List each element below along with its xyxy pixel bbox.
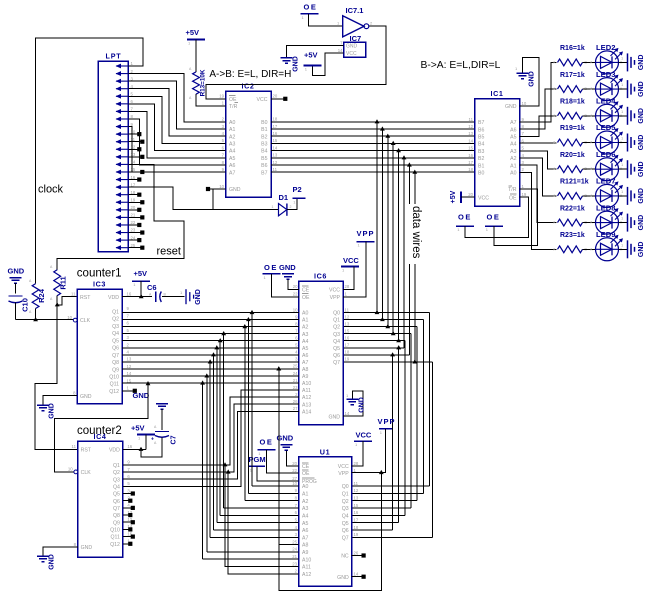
svg-text:CLK: CLK <box>80 318 91 324</box>
svg-text:26: 26 <box>354 550 359 555</box>
svg-text:A7: A7 <box>302 535 308 541</box>
ground terminal IC3 <box>37 403 56 419</box>
svg-text:GND: GND <box>638 215 645 231</box>
svg-text:R22=1k: R22=1k <box>560 205 585 212</box>
svg-text:A14: A14 <box>302 409 311 415</box>
svg-text:A12: A12 <box>302 572 311 578</box>
svg-text:Q8: Q8 <box>113 513 120 519</box>
svg-text:GND: GND <box>328 414 340 420</box>
svg-text:14: 14 <box>127 371 132 376</box>
svg-text:A1: A1 <box>229 127 235 133</box>
svg-text:Q6: Q6 <box>342 528 349 534</box>
svg-text:GND: GND <box>49 554 56 570</box>
svg-text:B3: B3 <box>478 149 484 155</box>
svg-text:A4: A4 <box>302 339 308 345</box>
svg-text:16: 16 <box>354 510 359 515</box>
svg-text:A->B: E=L, DIR=H: A->B: E=L, DIR=H <box>209 69 291 80</box>
svg-text:counter2: counter2 <box>77 425 122 437</box>
EPROM U1 (27128) <box>292 447 359 586</box>
svg-text:2: 2 <box>290 205 292 209</box>
wire R to LED row7 <box>583 222 596 224</box>
svg-text:19: 19 <box>219 94 224 99</box>
svg-text:Q7: Q7 <box>342 535 349 541</box>
svg-text:Q9: Q9 <box>112 367 119 373</box>
svg-text:IC7: IC7 <box>350 34 362 43</box>
ground terminal LED2 <box>621 53 645 71</box>
+5V terminal R13 <box>186 28 206 72</box>
wire R to LED row1 <box>583 61 596 63</box>
address line A14 <box>123 411 299 479</box>
svg-text:A1: A1 <box>510 163 516 169</box>
IC7 power box <box>338 34 366 57</box>
svg-text:A7: A7 <box>510 120 516 126</box>
svg-text:+5V: +5V <box>134 269 148 278</box>
svg-text:GND: GND <box>638 161 645 177</box>
VPP terminal U1 <box>352 417 396 473</box>
svg-text:P2: P2 <box>293 185 302 194</box>
svg-text:18: 18 <box>354 525 359 530</box>
wire OE b to IC1 T/R pin <box>494 189 538 245</box>
svg-text:C10: C10 <box>21 298 30 312</box>
data bus rows IC2.B to IC1.B <box>271 122 475 172</box>
svg-text:B5: B5 <box>478 135 484 141</box>
svg-text:13: 13 <box>273 153 278 158</box>
resistor R24 <box>29 279 46 314</box>
octal buffer IC2 (74245) <box>219 82 278 198</box>
junction R24/clock rail <box>33 317 38 321</box>
ground terminal LED9 <box>621 240 645 258</box>
svg-text:VPP: VPP <box>357 229 375 238</box>
svg-text:17: 17 <box>468 160 473 165</box>
svg-text:IC3: IC3 <box>93 280 106 289</box>
ground terminal IC4 <box>37 554 56 570</box>
wire LED8 to ground <box>619 222 628 224</box>
ground terminal IC6 CE <box>279 263 299 289</box>
wire IC2 OE loop <box>206 26 386 99</box>
svg-text:A9: A9 <box>302 550 308 556</box>
svg-text:16: 16 <box>345 336 350 341</box>
svg-text:reset: reset <box>157 246 181 258</box>
resistor R17 <box>553 72 588 93</box>
svg-text:13: 13 <box>345 321 350 326</box>
svg-text:RST: RST <box>80 295 91 301</box>
wire LPT pin14 reset <box>57 164 184 269</box>
data bus verticals (top) <box>375 119 418 362</box>
svg-text:15: 15 <box>354 503 359 508</box>
svg-text:24: 24 <box>293 371 298 376</box>
svg-text:25: 25 <box>293 364 298 369</box>
svg-text:GND: GND <box>293 56 300 72</box>
svg-text:A4: A4 <box>510 142 516 148</box>
svg-text:11: 11 <box>131 137 136 142</box>
svg-text:IC1: IC1 <box>491 89 504 98</box>
clock label <box>38 184 64 196</box>
svg-text:A13: A13 <box>302 402 311 408</box>
counter1 label <box>77 267 122 279</box>
resistor R121 <box>553 179 589 200</box>
svg-text:Q4: Q4 <box>112 331 119 337</box>
svg-text:Q2: Q2 <box>112 317 119 323</box>
svg-text:OE: OE <box>229 97 237 103</box>
svg-text:A2: A2 <box>302 499 308 505</box>
svg-text:11: 11 <box>273 167 278 172</box>
wire C6 to GND <box>162 296 185 298</box>
junction IC3 Q11 cascade <box>146 381 151 385</box>
OE terminal (inverter input) <box>301 3 343 27</box>
svg-text:19: 19 <box>345 357 350 362</box>
svg-text:22: 22 <box>131 220 136 225</box>
IC2 VCC stub <box>271 97 287 101</box>
svg-text:R23=1k: R23=1k <box>560 232 585 239</box>
svg-text:A3: A3 <box>302 332 308 338</box>
LED LED3 <box>590 70 623 101</box>
svg-text:Q0: Q0 <box>333 311 340 317</box>
svg-text:13: 13 <box>131 152 136 157</box>
svg-text:A0: A0 <box>510 171 516 177</box>
svg-text:A4: A4 <box>302 513 308 519</box>
svg-text:10: 10 <box>219 184 224 189</box>
svg-text:A4: A4 <box>229 149 235 155</box>
svg-text:Q5: Q5 <box>112 338 119 344</box>
counter2 label <box>77 425 122 437</box>
svg-text:GND: GND <box>195 289 202 305</box>
wire R to LED row3 <box>583 115 596 117</box>
svg-text:R17=1k: R17=1k <box>560 72 585 79</box>
wire LED6 to ground <box>619 168 628 170</box>
junction U1 VPP branch <box>379 470 384 474</box>
address lines A0-A10 (IC3.Q to IC6/U1) <box>122 310 299 559</box>
svg-text:R11: R11 <box>59 276 68 289</box>
svg-text:IC6: IC6 <box>314 272 327 281</box>
svg-text:R16=1k: R16=1k <box>560 45 585 52</box>
wire R24 to clock rail <box>35 309 37 320</box>
wire IC4 GND <box>43 547 78 556</box>
svg-text:18: 18 <box>273 117 278 122</box>
svg-text:14: 14 <box>273 145 278 150</box>
svg-text:16: 16 <box>127 292 132 297</box>
+5V terminal counter2 <box>131 424 155 450</box>
svg-text:13: 13 <box>127 357 132 362</box>
svg-text:B2: B2 <box>478 156 484 162</box>
svg-text:data wires: data wires <box>410 206 422 259</box>
svg-text:A1: A1 <box>302 492 308 498</box>
wire R11 to RST jog <box>56 296 58 305</box>
svg-text:VPP: VPP <box>338 471 349 477</box>
svg-text:B1: B1 <box>478 163 484 169</box>
svg-text:GND: GND <box>638 242 645 258</box>
resistor R19 <box>553 125 588 146</box>
svg-text:B6: B6 <box>261 163 267 169</box>
svg-text:IC2: IC2 <box>242 82 255 91</box>
svg-text:RST: RST <box>81 447 92 453</box>
svg-text:19: 19 <box>522 192 527 197</box>
svg-text:17: 17 <box>131 182 136 187</box>
svg-text:Q2: Q2 <box>333 325 340 331</box>
wire IC2 GND to D1 net <box>212 189 214 210</box>
svg-text:counter1: counter1 <box>77 267 122 279</box>
svg-text:VCC: VCC <box>478 195 489 201</box>
wire LED9 to ground <box>619 248 628 250</box>
svg-text:B4: B4 <box>478 142 484 148</box>
svg-text:OE: OE <box>260 438 274 447</box>
svg-text:CLK: CLK <box>81 470 92 476</box>
IC3 Q12 stub <box>122 389 137 393</box>
svg-text:20: 20 <box>468 192 473 197</box>
svg-text:11: 11 <box>469 117 474 122</box>
svg-text:10: 10 <box>522 101 527 106</box>
svg-text:23: 23 <box>292 561 297 566</box>
svg-text:1: 1 <box>272 205 274 209</box>
svg-text:10: 10 <box>131 129 136 134</box>
svg-text:OE: OE <box>304 3 318 12</box>
svg-text:VPP: VPP <box>330 295 341 301</box>
octal buffer IC1 (74245) <box>468 89 527 206</box>
svg-text:B0: B0 <box>478 171 484 177</box>
svg-text:24: 24 <box>131 235 136 240</box>
svg-text:A8: A8 <box>302 367 308 373</box>
svg-text:21: 21 <box>131 213 136 218</box>
svg-text:16: 16 <box>273 131 278 136</box>
svg-text:28: 28 <box>354 461 359 466</box>
svg-text:OE: OE <box>302 471 310 477</box>
svg-text:VCC: VCC <box>329 288 340 294</box>
data wires label <box>405 204 423 264</box>
svg-text:Q8: Q8 <box>112 360 119 366</box>
wire R to LED row5 <box>583 168 596 170</box>
svg-text:A1: A1 <box>302 318 308 324</box>
svg-text:C6: C6 <box>147 283 157 292</box>
svg-text:A6: A6 <box>302 353 308 359</box>
svg-text:A7: A7 <box>229 170 235 176</box>
ground terminal IC7 <box>281 56 300 72</box>
resistor R13 <box>189 67 207 100</box>
svg-text:Q0: Q0 <box>342 484 349 490</box>
counter IC4 (4040) <box>68 432 133 557</box>
resistor R23 <box>553 232 588 253</box>
svg-text:Q5: Q5 <box>113 492 120 498</box>
svg-text:10: 10 <box>293 307 298 312</box>
svg-text:16: 16 <box>127 444 132 449</box>
wire IC1 GND <box>520 57 539 106</box>
OE terminal IC1 b <box>485 213 503 233</box>
svg-text:GND: GND <box>337 575 349 581</box>
svg-text:Q7: Q7 <box>333 360 340 366</box>
svg-text:17: 17 <box>273 124 278 129</box>
svg-text:20: 20 <box>292 461 297 466</box>
svg-text:Q3: Q3 <box>113 477 120 483</box>
svg-text:GND: GND <box>133 391 150 400</box>
svg-text:Q11: Q11 <box>110 535 120 541</box>
OE terminal U1 <box>257 438 298 474</box>
U1 GND stub <box>352 575 366 579</box>
svg-text:clock: clock <box>38 184 64 196</box>
svg-text:A2: A2 <box>229 134 235 140</box>
svg-text:15: 15 <box>468 146 473 151</box>
svg-text:11: 11 <box>71 292 76 297</box>
ground terminal IC1 <box>515 66 536 87</box>
svg-text:21: 21 <box>293 378 298 383</box>
svg-text:VCC: VCC <box>356 431 372 440</box>
svg-text:14: 14 <box>338 48 343 53</box>
svg-text:B1: B1 <box>261 127 267 133</box>
svg-text:A3: A3 <box>302 506 308 512</box>
svg-text:VCC: VCC <box>338 464 349 470</box>
ground terminal (clock filter) <box>8 267 25 294</box>
svg-text:A12: A12 <box>302 395 311 401</box>
svg-text:LPT: LPT <box>106 52 122 61</box>
svg-text:VDD: VDD <box>109 447 120 453</box>
svg-text:GND: GND <box>638 81 645 97</box>
svg-text:CE: CE <box>302 288 310 294</box>
wire LED5 to ground <box>619 142 628 144</box>
svg-text:GND: GND <box>638 108 645 124</box>
svg-text:GND: GND <box>346 44 358 50</box>
LED LED6 <box>590 150 623 181</box>
svg-text:20: 20 <box>293 284 298 289</box>
data bus IC6.Q rows and drops to U1.Q <box>343 310 433 537</box>
svg-text:Q3: Q3 <box>333 332 340 338</box>
wire R to LED row8 <box>583 248 596 250</box>
wire D1 to P2 <box>287 198 297 209</box>
svg-text:A11: A11 <box>302 565 311 571</box>
svg-text:R18=1k: R18=1k <box>560 99 585 106</box>
svg-text:14: 14 <box>345 411 350 416</box>
svg-text:12: 12 <box>131 144 136 149</box>
svg-text:A7: A7 <box>302 360 308 366</box>
+5V terminal counter1 <box>132 269 150 297</box>
svg-text:12: 12 <box>127 364 132 369</box>
svg-text:A5: A5 <box>229 156 235 162</box>
wire R to LED row6 <box>583 195 596 197</box>
svg-text:Q7: Q7 <box>113 506 120 512</box>
svg-text:Q11: Q11 <box>110 382 120 388</box>
wire R13 to IC2 T/R <box>196 94 226 106</box>
svg-text:17: 17 <box>354 517 359 522</box>
svg-text:11: 11 <box>345 307 350 312</box>
svg-text:18: 18 <box>131 190 136 195</box>
svg-text:11: 11 <box>354 481 359 486</box>
LED LED5 <box>590 123 623 154</box>
svg-text:Q6: Q6 <box>113 499 120 505</box>
capacitor C6 <box>147 283 167 302</box>
ground terminal LED5 <box>621 134 645 152</box>
svg-text:VCC: VCC <box>257 97 268 103</box>
svg-text:Q12: Q12 <box>109 389 119 395</box>
address line A11 <box>123 390 299 486</box>
svg-text:NC: NC <box>341 554 349 560</box>
svg-text:B7: B7 <box>261 170 267 176</box>
svg-text:13: 13 <box>468 131 473 136</box>
svg-text:15: 15 <box>273 138 278 143</box>
svg-text:GND: GND <box>279 263 296 272</box>
ground terminal C7 <box>133 391 169 430</box>
svg-text:+5V: +5V <box>450 190 457 203</box>
svg-text:OE: OE <box>264 263 278 272</box>
clock rail to IC3 CLK <box>16 319 73 321</box>
svg-text:19: 19 <box>354 532 359 537</box>
svg-text:OE: OE <box>458 213 472 222</box>
svg-text:OE: OE <box>487 213 501 222</box>
svg-text:23: 23 <box>131 228 136 233</box>
svg-text:GND: GND <box>49 403 56 419</box>
svg-text:C7: C7 <box>171 435 178 444</box>
svg-text:Q6: Q6 <box>112 346 119 352</box>
LED LED7 <box>590 177 623 208</box>
svg-text:PGM: PGM <box>249 455 266 464</box>
wire LED2 to ground <box>619 61 628 63</box>
svg-text:A5: A5 <box>510 135 516 141</box>
address line A12 <box>123 397 299 566</box>
svg-text:R19=1k: R19=1k <box>560 125 585 132</box>
capacitor C10 plates <box>9 296 30 312</box>
svg-text:T/R: T/R <box>508 187 517 193</box>
svg-text:A0: A0 <box>302 311 308 317</box>
svg-text:B->A: E=L,DIR=L: B->A: E=L,DIR=L <box>421 60 501 71</box>
svg-text:10: 10 <box>292 481 297 486</box>
svg-text:Q5: Q5 <box>333 346 340 352</box>
svg-text:15: 15 <box>345 328 350 333</box>
wires IC1.A outputs to LED rows <box>520 62 557 249</box>
IC4 unconnected Q stubs <box>123 491 135 545</box>
wire OE a to IC1 OE pin <box>465 197 528 237</box>
IC2 GND stub <box>206 187 226 191</box>
svg-text:OE: OE <box>509 195 517 201</box>
svg-text:GND: GND <box>229 187 241 193</box>
+5V terminal IC7 <box>304 50 322 71</box>
LED LED4 <box>590 97 623 128</box>
svg-text:VPP: VPP <box>378 417 396 426</box>
svg-text:16: 16 <box>468 153 473 158</box>
svg-text:VDD: VDD <box>108 295 119 301</box>
OE terminal IC6 <box>263 263 299 297</box>
svg-text:10: 10 <box>68 467 73 472</box>
wire IC3 RST <box>57 297 77 305</box>
svg-text:B4: B4 <box>261 149 267 155</box>
svg-text:GND: GND <box>505 104 517 110</box>
svg-text:R13=10K: R13=10K <box>200 69 207 96</box>
svg-text:25: 25 <box>131 243 136 248</box>
svg-text:GND: GND <box>80 394 92 400</box>
ground terminal LED3 <box>621 80 645 98</box>
direction note B->A <box>421 60 501 71</box>
svg-text:B3: B3 <box>261 142 267 148</box>
terminal P2 <box>292 185 305 204</box>
svg-text:12: 12 <box>345 314 350 319</box>
svg-text:17: 17 <box>345 343 350 348</box>
svg-text:21: 21 <box>292 554 297 559</box>
svg-text:A10: A10 <box>302 381 311 387</box>
wire LED7 to ground <box>619 195 628 197</box>
svg-text:A3: A3 <box>510 149 516 155</box>
wires LPT data pins to IC2 A inputs <box>128 74 225 173</box>
svg-text:18: 18 <box>345 350 350 355</box>
resistor R16 <box>553 45 588 66</box>
capacitor C10 <box>0 0 1 1</box>
wire R to LED row4 <box>583 142 596 144</box>
svg-text:A6: A6 <box>510 127 516 133</box>
svg-text:B2: B2 <box>261 134 267 140</box>
svg-text:A0: A0 <box>302 484 308 490</box>
svg-text:14: 14 <box>354 572 359 577</box>
svg-text:GND: GND <box>8 267 25 276</box>
svg-text:13: 13 <box>354 496 359 501</box>
svg-text:GND: GND <box>638 55 645 71</box>
ground terminal U1 CE <box>277 434 299 467</box>
svg-text:GND: GND <box>359 397 366 413</box>
VCC terminal U1 <box>352 431 372 467</box>
svg-text:12: 12 <box>273 160 278 165</box>
svg-text:B0: B0 <box>261 120 267 126</box>
